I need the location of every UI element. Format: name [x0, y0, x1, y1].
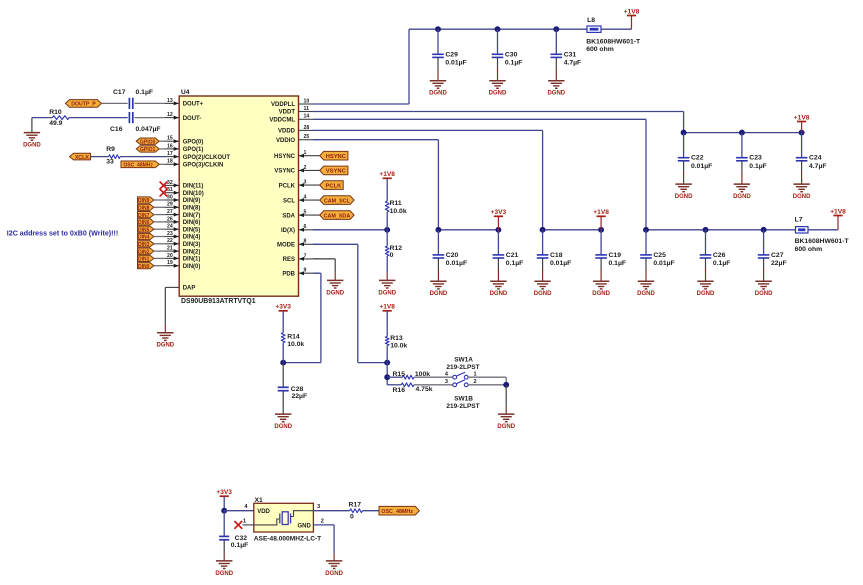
- svg-text:15: 15: [167, 136, 173, 142]
- pin 17 GPO(2)/CLKOUT: [165, 151, 230, 161]
- wire pwr stub up: [631, 16, 633, 30]
- wire R16 to SW1B: [414, 384, 453, 386]
- no-connect X X1 pin1: [234, 521, 242, 529]
- wire L7 pwr stub: [837, 216, 839, 230]
- svg-text:DIN7: DIN7: [138, 213, 150, 219]
- wire VDDD down: [542, 130, 544, 229]
- capacitor C29 0.01µF: [432, 29, 466, 80]
- no-connect X pin 31: [160, 189, 168, 197]
- ground DGND C32: [215, 561, 233, 577]
- wire DIN1 to pin: [154, 257, 165, 259]
- svg-text:XCLK: XCLK: [75, 155, 89, 161]
- wire R12 gnd stub: [386, 272, 388, 280]
- power +1V8 C24: [794, 114, 810, 121]
- capacitor C17 0.1µF: [113, 89, 153, 109]
- svg-text:DIN8: DIN8: [138, 206, 150, 212]
- capacitor C28 22µF: [278, 363, 307, 415]
- power +3V3 X1: [216, 489, 232, 496]
- svg-text:C26: C26: [713, 252, 726, 259]
- X1 pin numbers: [243, 504, 324, 524]
- wire C20 rail: [438, 229, 498, 231]
- svg-text:GPO(2)/CLKOUT: GPO(2)/CLKOUT: [183, 155, 231, 161]
- svg-text:R12: R12: [390, 245, 403, 252]
- net flag HSYNC: [320, 151, 348, 160]
- junction bus C31: [553, 26, 559, 32]
- svg-text:VSYNC: VSYNC: [326, 169, 347, 175]
- wire X1 pwr stub: [223, 496, 225, 511]
- svg-text:33: 33: [106, 158, 114, 165]
- svg-text:DIN(5): DIN(5): [183, 227, 201, 233]
- ground DGND under C27: [755, 281, 773, 297]
- svg-text:+1V8: +1V8: [593, 209, 609, 216]
- svg-text:DGND: DGND: [637, 291, 655, 297]
- svg-text:DIN6: DIN6: [138, 220, 150, 226]
- pin 1 HSYNC: [274, 150, 320, 160]
- label BK1608HW601-T 600 ohm: [586, 38, 641, 53]
- wire OSC flag to pin 18: [159, 163, 165, 165]
- wire PDB to R14 node: [283, 362, 321, 364]
- pin 29 DIN(8): [165, 202, 200, 212]
- svg-text:+1V8: +1V8: [379, 304, 395, 311]
- svg-text:26: 26: [167, 216, 173, 222]
- svg-text:VDD: VDD: [257, 509, 270, 515]
- net flag DIN7: [138, 212, 154, 219]
- svg-text:22: 22: [167, 238, 173, 244]
- wire DIN9 to pin: [154, 199, 165, 201]
- svg-text:DIN4: DIN4: [138, 235, 150, 241]
- switch SW1A 219-2LPST: [445, 357, 480, 380]
- svg-text:GPO(1): GPO(1): [183, 147, 204, 153]
- wire SW gnd stub: [505, 406, 507, 414]
- wire R14 top: [282, 311, 284, 333]
- junction SW node: [503, 382, 509, 388]
- svg-text:DGND: DGND: [733, 194, 751, 200]
- IC U4 DS90UB913ATRTVTQ1 body: [179, 96, 298, 296]
- svg-text:DAP: DAP: [183, 286, 196, 292]
- svg-text:3: 3: [445, 379, 448, 385]
- svg-text:R9: R9: [106, 146, 115, 153]
- svg-text:+1V8: +1V8: [379, 171, 395, 178]
- pin 19 DIN(0): [165, 260, 200, 270]
- svg-text:16: 16: [167, 143, 173, 149]
- wire L7 to corner: [808, 229, 838, 231]
- svg-text:DIN(9): DIN(9): [183, 198, 201, 204]
- junction rail C25: [643, 227, 649, 233]
- capacitor C18 0.01µF: [537, 230, 571, 281]
- pin 12 DOUT-: [165, 112, 201, 122]
- pin 6 ID(X): [281, 224, 320, 234]
- net flag OSC_48MHz left: [121, 161, 159, 169]
- wire MODE to R13 node: [358, 362, 387, 364]
- svg-text:SCL: SCL: [283, 198, 295, 204]
- pin 15 GPO(0): [165, 136, 203, 146]
- wire PDB down: [320, 273, 322, 362]
- resistor R11 10.0k: [385, 200, 407, 215]
- svg-text:10: 10: [304, 98, 310, 104]
- svg-text:C16: C16: [110, 126, 123, 133]
- capacitor C30 0.1µF: [492, 29, 523, 80]
- svg-text:DGND: DGND: [156, 343, 174, 349]
- svg-text:DGND: DGND: [325, 571, 343, 577]
- svg-text:DGND: DGND: [429, 91, 447, 97]
- pin 22 DIN(3): [165, 238, 200, 248]
- junction rail C21: [495, 227, 501, 233]
- wire PDB right: [313, 272, 321, 274]
- svg-text:CAM_SDA: CAM_SDA: [324, 213, 351, 219]
- capacitor C24 4.7µF: [796, 133, 827, 185]
- wire R14 bottom: [282, 343, 284, 363]
- svg-text:DIN0: DIN0: [138, 264, 150, 270]
- ground DGND under C18: [534, 281, 552, 297]
- svg-text:0.1µF: 0.1µF: [506, 260, 524, 267]
- wire MODE right: [313, 243, 358, 245]
- svg-text:219-2LPST: 219-2LPST: [446, 403, 479, 410]
- svg-text:DIN1: DIN1: [138, 257, 150, 263]
- svg-text:0: 0: [390, 252, 394, 259]
- wire DIN4 to pin: [154, 236, 165, 238]
- svg-text:0.01µF: 0.01µF: [445, 60, 466, 67]
- resistor R9 33: [106, 146, 120, 165]
- svg-text:C22: C22: [691, 155, 704, 162]
- wire C17 to pin 13: [135, 102, 166, 104]
- svg-text:DGND: DGND: [497, 424, 515, 430]
- capacitor C19 0.1µF: [595, 230, 626, 281]
- svg-text:C19: C19: [609, 252, 622, 259]
- resistor R17 0: [349, 501, 363, 520]
- pin 31 DIN(10): [165, 187, 204, 197]
- pin 25 VDDIO: [276, 134, 313, 144]
- wire SW1B out: [468, 384, 506, 386]
- svg-text:+3V3: +3V3: [275, 304, 291, 311]
- svg-text:ASE-48.000MHZ-LC-T: ASE-48.000MHZ-LC-T: [254, 536, 321, 543]
- wire X1 pin2 gnd stub: [333, 553, 335, 561]
- svg-text:DGND: DGND: [215, 571, 233, 577]
- ground DGND under C19: [592, 281, 610, 297]
- svg-text:R15: R15: [393, 371, 406, 378]
- svg-text:32: 32: [167, 180, 173, 186]
- svg-text:C30: C30: [505, 51, 518, 58]
- svg-text:L8: L8: [587, 17, 595, 24]
- wire C21 pwr stub: [497, 216, 499, 230]
- svg-text:ID(X): ID(X): [281, 228, 295, 234]
- svg-text:VDDD: VDDD: [278, 129, 296, 135]
- net flag DIN9: [138, 197, 154, 204]
- svg-text:0.1µF: 0.1µF: [505, 60, 523, 67]
- wire L8 to pwr corner: [601, 28, 632, 30]
- wire VDDCML down: [645, 119, 647, 230]
- svg-text:49.9: 49.9: [49, 120, 62, 127]
- power +3V3 C21: [491, 209, 507, 216]
- pin 13 DOUT+: [165, 98, 204, 108]
- svg-text:C17: C17: [113, 89, 126, 96]
- oscillator X1 body: [254, 503, 314, 532]
- svg-text:4.7µF: 4.7µF: [564, 60, 582, 67]
- wire X1 pin2 right: [313, 524, 334, 526]
- ground DGND R10: [23, 133, 41, 149]
- svg-text:0.047µF: 0.047µF: [136, 126, 161, 133]
- svg-text:R13: R13: [390, 335, 403, 342]
- svg-text:DGND: DGND: [430, 291, 448, 297]
- power +1V8 top right: [624, 8, 640, 15]
- label L7 BK1608HW601-T 600 ohm: [795, 238, 850, 253]
- wire VDDD right: [313, 129, 543, 131]
- wire DOUT+ flag to C17: [101, 102, 127, 104]
- junction rail C19: [598, 227, 604, 233]
- junction bus C29: [435, 26, 441, 32]
- svg-text:DGND: DGND: [274, 424, 292, 430]
- svg-text:DGND: DGND: [326, 290, 344, 296]
- svg-text:I2C address set to 0xB0 (Write: I2C address set to 0xB0 (Write)!!!: [7, 229, 118, 237]
- net flag DIN4: [138, 233, 154, 240]
- net flag DIN0: [138, 263, 154, 270]
- junction rail C24: [799, 130, 805, 136]
- svg-text:28: 28: [304, 125, 310, 131]
- svg-text:DGND: DGND: [23, 143, 41, 149]
- net flag DIN3: [138, 241, 154, 248]
- wire R10 to C16: [69, 117, 128, 119]
- ground DGND DAP: [156, 333, 174, 349]
- wire DAP gnd stub: [164, 325, 166, 333]
- svg-text:DOUT+: DOUT+: [183, 102, 204, 108]
- wire R11 bottom: [386, 212, 388, 230]
- svg-text:DGND: DGND: [489, 91, 507, 97]
- svg-text:RES: RES: [283, 257, 295, 263]
- svg-text:10.0k: 10.0k: [390, 208, 407, 215]
- wire VDDT down: [683, 112, 685, 133]
- svg-text:+3V3: +3V3: [491, 209, 507, 216]
- wire top bus: [409, 28, 587, 30]
- pin 4 SCL: [283, 195, 320, 205]
- net flag XCLK: [70, 153, 91, 161]
- svg-text:PDB: PDB: [282, 271, 295, 277]
- svg-text:C24: C24: [809, 155, 822, 162]
- ground DGND under C31: [547, 81, 565, 97]
- svg-text:18: 18: [167, 159, 173, 165]
- net flag OSC_48MHz bottom: [379, 506, 419, 515]
- wire VDDCML right: [313, 118, 646, 120]
- svg-text:SW1B: SW1B: [454, 396, 473, 403]
- svg-text:GPIO0: GPIO0: [140, 139, 156, 145]
- svg-text:DIN(4): DIN(4): [183, 235, 201, 241]
- svg-text:DGND: DGND: [697, 291, 715, 297]
- pin 11 VDDT: [279, 106, 313, 116]
- svg-text:C27: C27: [771, 252, 784, 259]
- svg-text:GND: GND: [297, 524, 311, 530]
- ground DGND RES: [326, 280, 344, 296]
- svg-text:VDDPLL: VDDPLL: [271, 102, 295, 108]
- capacitor C23 0.1µF: [736, 133, 767, 185]
- resistor R10 49.9: [49, 109, 69, 127]
- power +1V8 R13: [379, 304, 395, 311]
- svg-text:30: 30: [167, 194, 173, 200]
- svg-text:DS90UB913ATRTVTQ1: DS90UB913ATRTVTQ1: [181, 298, 256, 305]
- wire DIN6 to pin: [154, 221, 165, 223]
- svg-text:0.01µF: 0.01µF: [653, 260, 674, 267]
- junction rail C20: [435, 227, 441, 233]
- capacitor C26 0.1µF: [700, 230, 731, 281]
- wire RES down: [334, 259, 336, 273]
- svg-text:MODE: MODE: [277, 243, 295, 249]
- svg-text:13: 13: [167, 98, 173, 104]
- svg-text:DIN(10): DIN(10): [183, 191, 204, 197]
- svg-text:0.01µF: 0.01µF: [691, 163, 712, 170]
- svg-text:25: 25: [304, 134, 310, 140]
- net flag DIN2: [138, 248, 154, 255]
- svg-text:DGND: DGND: [490, 291, 508, 297]
- svg-text:VDDCML: VDDCML: [269, 118, 295, 124]
- pin 24 DIN(5): [165, 224, 200, 234]
- svg-text:2: 2: [321, 519, 324, 525]
- wire SW to gnd: [505, 385, 507, 406]
- capacitor C32 0.1µF: [219, 511, 248, 561]
- svg-text:OSC_48MHz: OSC_48MHz: [381, 509, 413, 515]
- net flag DIN6: [138, 219, 154, 226]
- svg-text:10.0k: 10.0k: [287, 341, 304, 348]
- wire C19 pwr stub: [600, 216, 602, 230]
- capacitor C21 0.1µF: [493, 230, 524, 281]
- power +3V3 R14: [275, 304, 291, 311]
- svg-text:4.7µF: 4.7µF: [809, 163, 827, 170]
- junction MODE/R13: [384, 360, 390, 366]
- wire X1 pin3 to R17: [313, 510, 349, 512]
- svg-text:OSC_48MHz: OSC_48MHz: [123, 163, 153, 169]
- svg-text:U4: U4: [181, 89, 190, 96]
- net flag DIN1: [138, 255, 154, 262]
- wire DIN8 to pin: [154, 206, 165, 208]
- svg-text:0: 0: [350, 514, 354, 521]
- svg-text:27: 27: [167, 209, 173, 215]
- capacitor C25 0.01µF: [640, 230, 674, 281]
- svg-text:BK1608HW601-T: BK1608HW601-T: [795, 238, 850, 245]
- svg-text:DIN5: DIN5: [138, 227, 150, 233]
- junction X1 VDD: [221, 508, 227, 514]
- svg-text:CAM_SCL: CAM_SCL: [324, 198, 351, 204]
- wire VDDIO down: [437, 140, 439, 230]
- svg-text:R16: R16: [393, 387, 406, 394]
- svg-text:R17: R17: [349, 501, 362, 508]
- svg-text:+3V3: +3V3: [216, 489, 232, 496]
- wire C18 rail: [543, 229, 602, 231]
- svg-text:1: 1: [243, 519, 246, 525]
- svg-text:R14: R14: [287, 333, 300, 340]
- net flag DOUTP_P: [66, 100, 102, 108]
- wire to X1 pin4: [224, 510, 254, 512]
- svg-text:BK1608HW601-T: BK1608HW601-T: [586, 38, 641, 45]
- wire R9 to pin 17: [120, 156, 165, 158]
- power +1V8 L7: [830, 208, 846, 215]
- wire SW out corner: [505, 377, 507, 385]
- svg-text:600 ohm: 600 ohm: [795, 246, 823, 253]
- wire C25 rail: [646, 229, 796, 231]
- wire VDDT right: [313, 111, 684, 113]
- wire X1 pin2 down: [333, 525, 335, 553]
- svg-text:GPIO1: GPIO1: [140, 147, 156, 153]
- net flag DIN5: [138, 226, 154, 233]
- net flag CAM_SDA: [320, 211, 354, 220]
- svg-text:C28: C28: [291, 386, 304, 393]
- pin 14 VDDCML: [269, 114, 313, 124]
- svg-text:22µF: 22µF: [292, 393, 308, 400]
- svg-text:SW1A: SW1A: [454, 357, 473, 364]
- svg-text:C23: C23: [749, 155, 762, 162]
- ground DGND under C22: [675, 184, 693, 200]
- wire X1 pin1 stub: [243, 524, 254, 526]
- svg-text:C18: C18: [550, 252, 563, 259]
- resistor R15 100k: [393, 371, 431, 379]
- wire R10 gnd stub: [31, 118, 33, 133]
- svg-text:PCLK: PCLK: [326, 183, 343, 189]
- pin 32 DIN(11): [165, 180, 203, 190]
- svg-text:11: 11: [304, 106, 310, 112]
- svg-text:DOUTP_P: DOUTP_P: [71, 102, 96, 108]
- pin 10 VDDPLL: [271, 98, 313, 108]
- svg-text:C25: C25: [653, 252, 666, 259]
- svg-text:DIN(2): DIN(2): [183, 249, 201, 255]
- wire ID(X) to divider: [313, 229, 387, 231]
- svg-text:14: 14: [304, 114, 310, 120]
- pin 20 DIN(1): [165, 253, 200, 263]
- svg-text:0.1µF: 0.1µF: [231, 542, 249, 549]
- svg-text:0.01µF: 0.01µF: [550, 260, 571, 267]
- ground DGND under C23: [733, 184, 751, 200]
- svg-text:DGND: DGND: [592, 291, 610, 297]
- svg-text:DIN(3): DIN(3): [183, 242, 201, 248]
- wire DIN7 to pin: [154, 214, 165, 216]
- junction IDX: [384, 227, 390, 233]
- wire DIN2 to pin: [154, 250, 165, 252]
- wire RES gnd stub: [334, 272, 336, 280]
- svg-text:DIN(7): DIN(7): [183, 213, 201, 219]
- net flag CAM_SCL: [320, 196, 354, 205]
- svg-text:X1: X1: [255, 497, 263, 504]
- ground DGND under C24: [793, 184, 811, 200]
- svg-text:DIN3: DIN3: [138, 242, 150, 248]
- capacitor C22 0.01µF: [678, 133, 712, 185]
- junction rail C26: [703, 227, 709, 233]
- pin 21 DIN(2): [165, 246, 200, 256]
- pin 16 GPO(1): [165, 143, 203, 153]
- wire C22 rail: [684, 132, 802, 134]
- no-connect X pin 32: [160, 182, 168, 190]
- power +1V8 C19: [593, 209, 609, 216]
- capacitor C27 22µF: [758, 230, 787, 281]
- pin 3 PCLK: [279, 180, 320, 190]
- svg-text:VDDIO: VDDIO: [276, 138, 295, 144]
- pin 7 RES: [283, 253, 320, 263]
- capacitor C20 0.01µF: [433, 230, 467, 281]
- wire XCLK to R9: [91, 156, 109, 158]
- wire VDDIO right: [313, 139, 438, 141]
- junction rail C27: [761, 227, 767, 233]
- wire DAP down: [164, 287, 166, 324]
- svg-text:+1V8: +1V8: [624, 8, 640, 15]
- svg-text:C29: C29: [445, 51, 458, 58]
- wire R13 top: [386, 311, 388, 337]
- svg-text:DIN(8): DIN(8): [183, 206, 201, 212]
- net flag PCLK: [320, 181, 344, 190]
- net flag GPIO0: [136, 138, 159, 145]
- svg-text:DIN9: DIN9: [138, 198, 150, 204]
- net flag DIN8: [138, 204, 154, 211]
- pin 30 DIN(9): [165, 194, 200, 204]
- resistor R12 0: [385, 245, 402, 259]
- pin 23 DIN(4): [165, 231, 200, 241]
- svg-text:GPO(3)/CLKIN: GPO(3)/CLKIN: [183, 163, 224, 169]
- svg-text:0.1µF: 0.1µF: [749, 163, 767, 170]
- ground DGND under C26: [697, 281, 715, 297]
- wire to R16: [387, 384, 401, 386]
- svg-text:DGND: DGND: [675, 194, 693, 200]
